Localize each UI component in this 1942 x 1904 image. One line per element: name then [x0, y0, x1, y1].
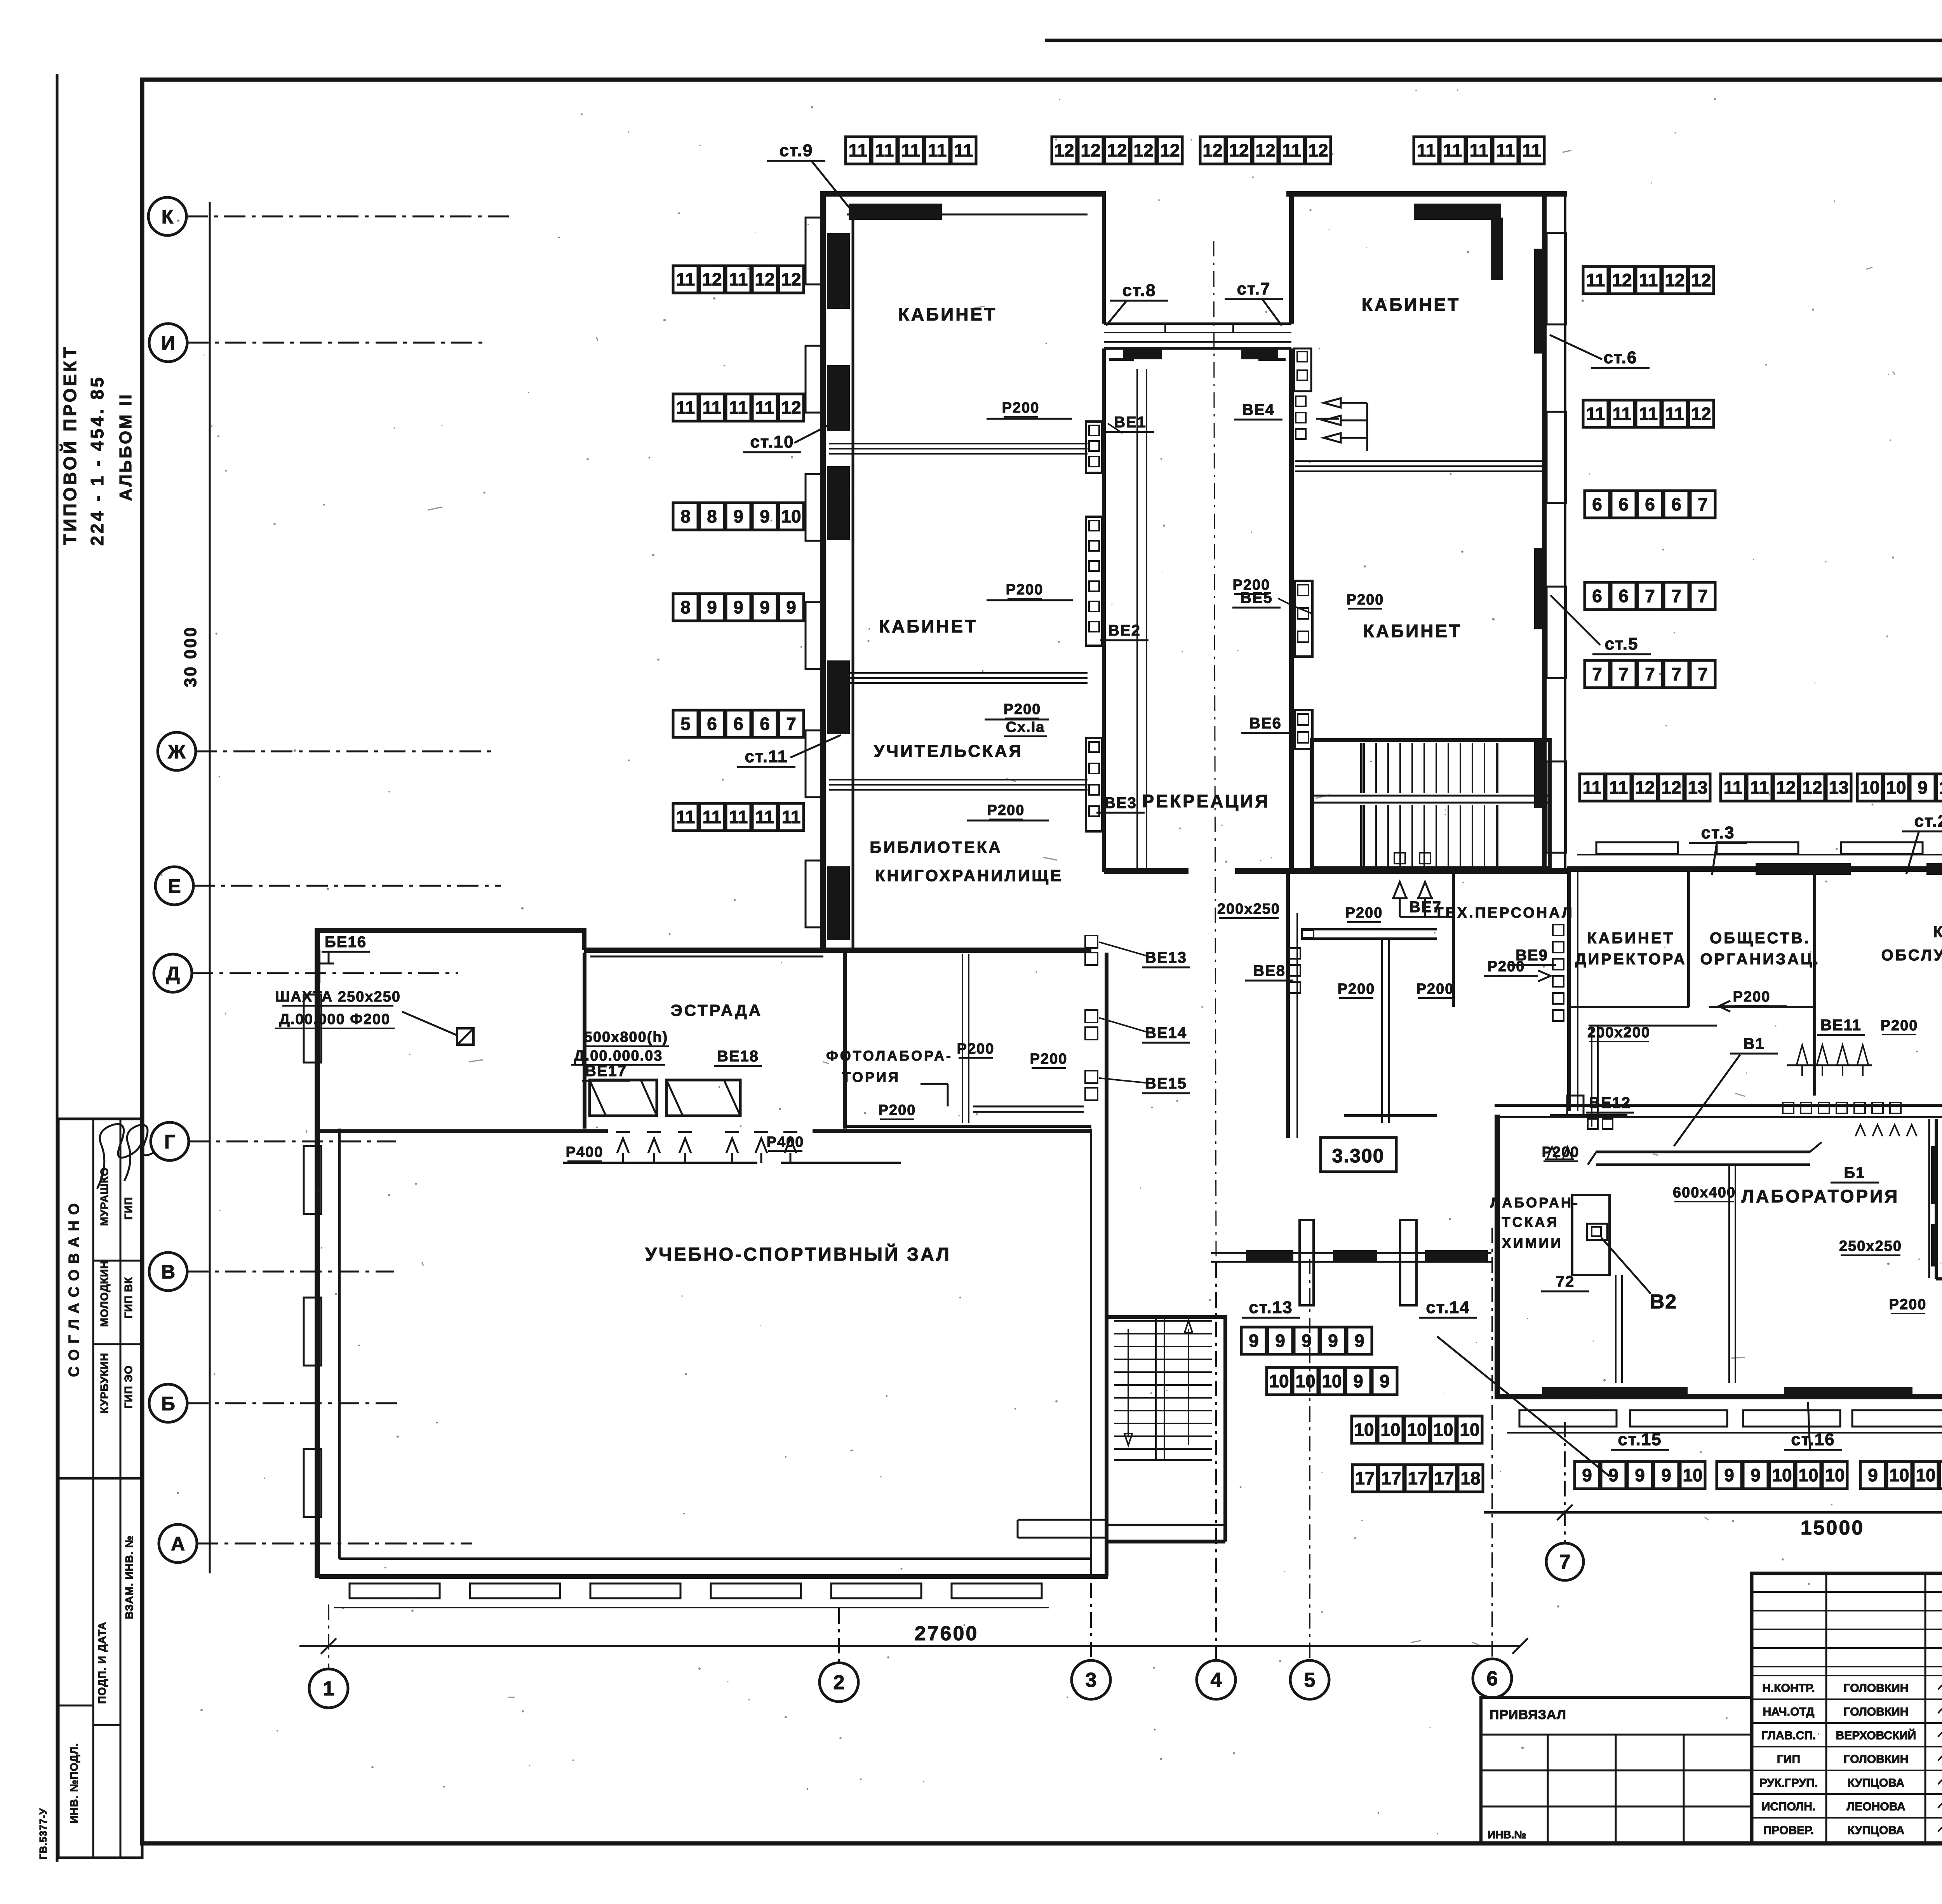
south corridor dark chunk 2: [1333, 1250, 1377, 1263]
axis riser dash line x=2160: [838, 1608, 840, 1663]
title block staff row lines: [1752, 1675, 1942, 1676]
svg-text:200x250: 200x250: [1217, 901, 1280, 917]
svg-text:9: 9: [760, 597, 770, 617]
svg-text:ст.9: ст.9: [780, 141, 813, 160]
photolab duct line: [973, 1106, 1084, 1108]
svg-text:ст.10: ст.10: [750, 432, 794, 451]
VE13 squares: [1085, 935, 1098, 948]
block A outer left wall: [820, 191, 826, 951]
svg-text:ВЕ14: ВЕ14: [1145, 1024, 1187, 1042]
number table strip 11-11-12-12-13: [1721, 774, 1851, 801]
svg-text:АЛЬБОМ II: АЛЬБОМ II: [116, 393, 135, 501]
svg-text:Р400: Р400: [566, 1144, 604, 1160]
svg-text:11: 11: [875, 140, 894, 160]
svg-text:12: 12: [1133, 140, 1153, 160]
svg-text:ГОЛОВКИН: ГОЛОВКИН: [1844, 1705, 1909, 1718]
tech zone west wall: [1286, 871, 1290, 1138]
svg-text:7: 7: [1671, 586, 1681, 606]
svg-text:10: 10: [1860, 777, 1879, 798]
block B right window 2: [1547, 412, 1566, 503]
title block upper mini rows: [1752, 1591, 1942, 1593]
svg-text:7: 7: [1698, 586, 1708, 606]
vertical dimension line 30000: [209, 202, 211, 1573]
svg-text:11: 11: [1609, 777, 1628, 798]
dimension line 27600: [299, 1645, 1520, 1647]
svg-text:10: 10: [1889, 1465, 1909, 1485]
number table strip 8-8-9-9-10: [673, 503, 804, 530]
VE12 arrows: [1547, 1147, 1557, 1158]
svg-text:Р200: Р200: [1881, 1017, 1918, 1034]
svg-text:КУПЦОВА: КУПЦОВА: [1848, 1824, 1904, 1837]
svg-text:11: 11: [849, 140, 868, 160]
VE8 vent squares: [1289, 948, 1300, 959]
axis И dash-dot leader line: [187, 342, 486, 344]
P200 arrow obschestv: [1719, 1005, 1787, 1007]
svg-text:ст.8: ст.8: [1122, 281, 1156, 300]
privyazal table border: [1481, 1697, 1752, 1843]
svg-text:12: 12: [781, 269, 801, 289]
svg-text:9: 9: [1751, 1465, 1761, 1485]
stair tower east wall: [1223, 1315, 1227, 1542]
svg-text:6: 6: [1645, 494, 1655, 514]
svg-text:ТОРИЯ: ТОРИЯ: [842, 1069, 900, 1085]
svg-text:12: 12: [1160, 140, 1180, 160]
stair tower up arrow: [1185, 1321, 1192, 1333]
svg-text:13: 13: [1829, 777, 1848, 798]
south corridor dark chunk 3: [1425, 1250, 1488, 1263]
labs bottom wall dark chunk 2: [1784, 1387, 1912, 1397]
svg-text:10: 10: [1798, 1465, 1818, 1485]
stair tower treads: [1114, 1320, 1212, 1322]
svg-text:10: 10: [1354, 1420, 1374, 1440]
svg-text:9: 9: [1724, 1465, 1734, 1485]
stair tower top wall: [1108, 1315, 1225, 1319]
svg-text:11: 11: [729, 807, 748, 827]
svg-text:КУПЦОВА: КУПЦОВА: [1848, 1777, 1904, 1789]
VE14 leader: [1099, 1018, 1149, 1033]
svg-text:10: 10: [1825, 1465, 1845, 1485]
axis circle 4: [1197, 1660, 1236, 1699]
bridge end hook right: [1258, 358, 1286, 361]
svg-text:10: 10: [1683, 1465, 1702, 1485]
sport hall east wall inner: [1090, 1129, 1092, 1577]
svg-text:10: 10: [1460, 1420, 1479, 1440]
vent chamber VE18: [666, 1080, 740, 1116]
svg-text:6: 6: [1487, 1667, 1498, 1690]
sport hall top inner wall left part: [319, 1129, 608, 1133]
svg-text:9: 9: [1635, 1465, 1645, 1485]
svg-text:11: 11: [1639, 404, 1658, 424]
svg-text:ВЕ18: ВЕ18: [717, 1048, 759, 1065]
svg-text:6: 6: [760, 714, 770, 734]
svg-text:ст.6: ст.6: [1604, 348, 1637, 367]
bridge end hook left: [1109, 358, 1134, 361]
axis Б dash-dot leader line: [187, 1402, 400, 1404]
P200 flow line near VE1: [987, 418, 1072, 420]
svg-text:9: 9: [1661, 1465, 1671, 1485]
svg-text:12: 12: [1802, 777, 1822, 798]
BE16 leader vertical: [328, 953, 330, 963]
svg-text:ВЕ3: ВЕ3: [1104, 794, 1137, 812]
block B outer right wall line: [1564, 191, 1566, 868]
svg-text:10: 10: [1916, 1465, 1935, 1485]
block A black corner chunk: [849, 204, 942, 220]
tech zone partition wall: [1452, 871, 1455, 1007]
svg-text:12: 12: [1054, 140, 1074, 160]
kabinet direktora west wall: [1567, 871, 1571, 1111]
inventory table row line b: [93, 1724, 120, 1726]
riser leader ст.2: [1906, 832, 1919, 874]
direktora vertical pipe pair: [1591, 1026, 1592, 1127]
elevation mark box 3.300: [1321, 1138, 1396, 1172]
svg-text:6: 6: [1618, 494, 1629, 514]
VE4 arrows left: [1324, 398, 1341, 408]
P200 flow line uchitelskaya: [985, 719, 1049, 721]
svg-text:12: 12: [755, 269, 774, 289]
svg-text:ст.13: ст.13: [1249, 1298, 1293, 1317]
block A left pilaster 2: [806, 346, 823, 413]
svg-text:Р200: Р200: [1488, 958, 1525, 975]
stair tower bottom walls: [1108, 1524, 1225, 1526]
svg-text:Ж: Ж: [167, 741, 186, 763]
block A left wall poche chunk 5: [827, 866, 850, 940]
svg-text:КАБИНЕТ: КАБИНЕТ: [898, 304, 997, 324]
svg-text:Р200: Р200: [1345, 905, 1383, 921]
riser leader ст.7: [1262, 299, 1282, 326]
block B black top corner chunk: [1414, 204, 1501, 220]
svg-text:БИБЛИОТЕКА: БИБЛИОТЕКА: [870, 838, 1002, 856]
labs bottom wall: [1495, 1394, 1942, 1399]
svg-text:КАБИНЕТ: КАБИНЕТ: [1363, 621, 1462, 641]
inventory table border: [58, 1478, 142, 1858]
svg-text:500x800(h): 500x800(h): [584, 1029, 668, 1045]
number table strip 9-10-10-10-11: [1860, 1462, 1942, 1489]
number table strip 8-9-9-9-9: [673, 594, 804, 621]
axis circle Б: [149, 1384, 187, 1422]
block B inner right wall: [1542, 191, 1547, 868]
sport west pilaster 2: [304, 1146, 321, 1214]
title block outer border: [1752, 1573, 1942, 1843]
svg-text:3.300: 3.300: [1332, 1145, 1384, 1167]
duct 250x250 vertical bar: [1928, 1119, 1930, 1278]
P200 arrow kabinet B1: [1316, 418, 1339, 420]
riser leader ст.3: [1712, 843, 1717, 875]
svg-text:Р200: Р200: [1733, 989, 1771, 1005]
svg-text:ДИРЕКТОРА: ДИРЕКТОРА: [1575, 951, 1687, 968]
south corridor pillar 2: [1400, 1220, 1416, 1305]
wall obschestv-kabinet truda: [1813, 869, 1816, 1096]
fotolab west wall: [843, 953, 847, 1129]
svg-text:10: 10: [1407, 1420, 1427, 1440]
P200 arrow line tech: [1484, 975, 1538, 977]
soglasovano table border: [58, 1119, 142, 1478]
title block vertical line col1: [1825, 1573, 1827, 1843]
svg-text:ХИМИИ: ХИМИИ: [1502, 1235, 1563, 1251]
central stair treads lower flight: [1363, 805, 1365, 866]
svg-text:КАБИНЕТ: КАБИНЕТ: [1362, 294, 1460, 315]
block A inner top wall line: [847, 214, 1088, 216]
svg-text:12: 12: [1229, 140, 1249, 160]
number table strip 6-6-7-7-7: [1585, 582, 1715, 610]
svg-text:БЕ16: БЕ16: [325, 934, 367, 951]
himii vertical pipe pair: [1615, 1275, 1617, 1383]
svg-text:Г: Г: [164, 1131, 175, 1153]
block A interior wall kabinet1-kabinet2: [829, 443, 1088, 444]
svg-text:Н.КОНТР.: Н.КОНТР.: [1762, 1682, 1815, 1695]
bridge corridor lower double line: [1104, 341, 1291, 343]
block A left wall poche chunk 3: [827, 466, 850, 540]
svg-text:ОБЩЕСТВ.: ОБЩЕСТВ.: [1710, 930, 1811, 947]
axis В dash-dot leader line: [187, 1271, 394, 1273]
labs bottom window 4: [1852, 1410, 1942, 1427]
svg-text:ЛАБОРАТОРИЯ: ЛАБОРАТОРИЯ: [1742, 1186, 1899, 1206]
tech zone duct 200x250 bar: [1301, 928, 1437, 930]
privyazal grid lines: [1547, 1735, 1549, 1843]
axis circle 3: [1072, 1660, 1110, 1699]
VE13 leader: [1099, 942, 1149, 956]
axis circle Ж: [158, 732, 196, 770]
number table strip 7-7-7-7-7: [1585, 660, 1715, 688]
axis circle Д: [154, 954, 192, 992]
svg-text:ст.14: ст.14: [1426, 1298, 1470, 1317]
svg-text:9: 9: [1353, 1371, 1363, 1391]
svg-text:9: 9: [1328, 1331, 1338, 1351]
axis К dash-dot leader line: [186, 216, 509, 218]
dimension line 15000: [1484, 1511, 1942, 1514]
svg-text:10: 10: [1295, 1371, 1315, 1391]
axis riser dash line x=3372: [1309, 1259, 1310, 1660]
block B wall dark chunk 1: [1534, 249, 1546, 354]
axis circle В: [149, 1252, 187, 1291]
block B right window 3: [1547, 587, 1566, 678]
svg-text:Сх.Iа: Сх.Iа: [1006, 719, 1045, 735]
right block top window 1: [1596, 842, 1678, 854]
svg-text:12: 12: [1612, 270, 1632, 290]
sport block top wall estrada segment: [584, 948, 1091, 953]
svg-text:9: 9: [1380, 1371, 1390, 1391]
estrada inner outline: [590, 956, 823, 958]
sport bottom sill line: [334, 1607, 1049, 1608]
axis circle И: [149, 324, 187, 362]
number table strip 10-10-10-10-10: [1352, 1416, 1482, 1443]
svg-text:ШАХТА 250x250: ШАХТА 250x250: [275, 989, 401, 1005]
svg-text:11: 11: [1583, 777, 1602, 798]
VE1 leader: [1108, 423, 1122, 433]
svg-text:5: 5: [680, 714, 691, 734]
labs bottom sill line: [1507, 1432, 1942, 1434]
axis circle 6: [1473, 1659, 1512, 1698]
svg-text:12: 12: [1691, 270, 1711, 290]
svg-text:224 - 1 - 454. 85: 224 - 1 - 454. 85: [87, 375, 107, 546]
svg-text:ЛЕОНОВА: ЛЕОНОВА: [1846, 1800, 1905, 1813]
svg-text:11: 11: [1523, 140, 1542, 160]
sport block west wall: [315, 930, 320, 1578]
svg-text:12: 12: [781, 397, 801, 418]
block B wall dark chunk 2: [1534, 548, 1546, 629]
estrada supply header line left: [563, 1162, 757, 1164]
riser leader ст.11: [790, 735, 841, 758]
soglasovano table column line 2: [120, 1119, 122, 1478]
svg-text:ИСПОЛН.: ИСПОЛН.: [1762, 1800, 1815, 1813]
bridge black chunk right: [1241, 349, 1278, 359]
sport west pilaster 1: [304, 995, 321, 1063]
svg-text:17: 17: [1381, 1468, 1401, 1488]
svg-text:7: 7: [1671, 664, 1681, 684]
svg-text:10: 10: [1380, 1420, 1400, 1440]
svg-text:ВЕ4: ВЕ4: [1242, 401, 1275, 418]
south corridor dark chunk 1: [1246, 1250, 1293, 1263]
svg-text:ПОДП. И ДАТА: ПОДП. И ДАТА: [96, 1622, 108, 1704]
svg-text:9: 9: [707, 597, 717, 617]
svg-text:Р200: Р200: [1338, 981, 1375, 997]
svg-text:9: 9: [786, 597, 796, 617]
right block top wall dark chunk 1: [1756, 863, 1851, 875]
riser leader ст.10: [794, 419, 841, 443]
stair tower landing line: [1114, 1459, 1212, 1461]
labs vertical pipe pair: [1728, 1165, 1730, 1383]
svg-text:2: 2: [834, 1671, 845, 1694]
svg-text:12: 12: [1081, 140, 1100, 160]
svg-text:Р200: Р200: [1030, 1051, 1068, 1067]
svg-text:КАБИНЕТ: КАБИНЕТ: [1933, 923, 1942, 941]
svg-text:ПРОВЕР.: ПРОВЕР.: [1763, 1824, 1814, 1837]
svg-text:9: 9: [1868, 1465, 1878, 1485]
svg-text:ГОЛОВКИН: ГОЛОВКИН: [1844, 1682, 1909, 1695]
labs top wall double: [1495, 1104, 1942, 1107]
svg-text:9: 9: [733, 597, 743, 617]
svg-text:250x250: 250x250: [1839, 1238, 1902, 1254]
vent unit VE6 boxes: [1295, 710, 1312, 749]
right block top window 3: [1841, 842, 1923, 854]
svg-text:6: 6: [1592, 586, 1602, 606]
number table strip 6-6-6-6-7: [1585, 491, 1715, 518]
svg-text:ст.16: ст.16: [1791, 1430, 1835, 1449]
dimension tick at axis 6: [1512, 1638, 1528, 1654]
svg-text:6: 6: [1592, 494, 1602, 514]
number table strip 17-17-17-17-18: [1352, 1465, 1483, 1492]
block A interior wall uchitelskaya-biblioteka: [829, 779, 1088, 780]
riser leader ст.16: [1808, 1402, 1810, 1449]
svg-text:7: 7: [1698, 494, 1708, 514]
privyazal row line: [1481, 1734, 1752, 1736]
svg-text:11: 11: [782, 807, 801, 827]
svg-text:12: 12: [1635, 777, 1655, 798]
labs bottom window 1: [1519, 1410, 1617, 1427]
vent column VE4 squares below bridge: [1294, 348, 1311, 391]
svg-text:УЧЕБНО-СПОРТИВНЫЙ ЗАЛ: УЧЕБНО-СПОРТИВНЫЙ ЗАЛ: [645, 1244, 951, 1265]
vent chamber VE17: [590, 1080, 657, 1116]
svg-text:ФОТОЛАБОРА-: ФОТОЛАБОРА-: [826, 1048, 953, 1064]
svg-text:11: 11: [676, 269, 695, 289]
number table strip 11-11-11-11-11: [1414, 137, 1544, 164]
svg-text:4: 4: [1211, 1669, 1222, 1691]
sport hall bottom inner wall: [339, 1557, 1090, 1560]
top band upper line: [1045, 39, 1942, 42]
svg-text:11: 11: [1443, 140, 1462, 160]
svg-text:8: 8: [680, 597, 691, 617]
svg-text:УЧИТЕЛЬСКАЯ: УЧИТЕЛЬСКАЯ: [874, 742, 1023, 761]
svg-text:ГИП ВК: ГИП ВК: [122, 1277, 134, 1318]
svg-text:12: 12: [702, 269, 722, 289]
inventory table column line 1: [92, 1478, 94, 1858]
block B right window 4: [1547, 761, 1566, 853]
vent unit VE1 box: [1086, 422, 1102, 473]
svg-text:9: 9: [1582, 1465, 1592, 1485]
block A left pilaster 5: [806, 730, 823, 797]
recreation south wall: [1104, 868, 1189, 874]
svg-text:7: 7: [1618, 664, 1629, 684]
svg-text:Р400: Р400: [767, 1134, 804, 1150]
labs west wall: [1495, 1115, 1500, 1399]
svg-text:12: 12: [1107, 140, 1127, 160]
vent squares row on labs wall group 1: [1783, 1103, 1794, 1113]
svg-text:С О Г Л А С О В А Н О: С О Г Л А С О В А Н О: [66, 1202, 82, 1377]
svg-text:12: 12: [1691, 404, 1711, 424]
dimension tick at axis 1: [321, 1638, 336, 1654]
svg-text:ГЛАВ.СП.: ГЛАВ.СП.: [1761, 1729, 1816, 1742]
axis circle Е: [155, 867, 193, 905]
block A left pilaster 1: [806, 218, 823, 284]
svg-text:10: 10: [1269, 1371, 1289, 1391]
number table strip 11-11-12-12-13: [1580, 774, 1710, 801]
svg-text:17: 17: [1355, 1468, 1375, 1488]
bridge window divider 1: [1164, 324, 1166, 333]
VE11 bell symbols above labs wall: [1797, 1045, 1808, 1064]
scan scratch marks: [225, 150, 1942, 1697]
svg-text:РУК.ГРУП.: РУК.ГРУП.: [1759, 1777, 1818, 1789]
svg-text:9: 9: [1302, 1331, 1312, 1351]
block A right wall upper: [1102, 191, 1106, 324]
sport hall inner west wall: [338, 1129, 341, 1559]
svg-text:17: 17: [1434, 1468, 1454, 1488]
svg-text:200x200: 200x200: [1587, 1024, 1650, 1041]
central stairwell outline: [1312, 740, 1550, 868]
svg-text:ГИП: ГИП: [1777, 1753, 1800, 1766]
number table strip 5-6-6-6-7: [673, 710, 804, 737]
svg-text:1: 1: [323, 1678, 334, 1700]
svg-text:7: 7: [1592, 664, 1602, 684]
svg-text:10: 10: [781, 506, 801, 526]
svg-text:ЛАБОРАН-: ЛАБОРАН-: [1490, 1195, 1580, 1211]
svg-text:ВЕ1: ВЕ1: [1114, 414, 1147, 431]
labs bottom wall dark chunk 1: [1542, 1387, 1688, 1397]
svg-text:ВЕ8: ВЕ8: [1253, 962, 1286, 979]
axis riser dash line x=3131: [1215, 1263, 1217, 1660]
VE15 leader: [1099, 1078, 1149, 1083]
himii room enclosure: [1572, 1195, 1610, 1275]
svg-text:9: 9: [760, 506, 770, 526]
dimension tick at axis 7 line: [1557, 1505, 1573, 1520]
svg-text:7: 7: [1645, 586, 1655, 606]
sport bottom window 6: [952, 1583, 1042, 1598]
svg-text:10: 10: [1433, 1420, 1453, 1440]
svg-text:И: И: [161, 332, 175, 354]
right block top window 2: [1717, 842, 1798, 854]
svg-text:В1: В1: [1743, 1035, 1765, 1052]
svg-text:30 000: 30 000: [181, 626, 200, 688]
svg-text:11: 11: [755, 397, 774, 418]
svg-text:10: 10: [1322, 1371, 1342, 1391]
svg-text:Р200: Р200: [1002, 400, 1040, 416]
svg-text:ОРГАНИЗАЦ.: ОРГАНИЗАЦ.: [1700, 951, 1820, 968]
svg-text:КНИГОХРАНИЛИЩЕ: КНИГОХРАНИЛИЩЕ: [875, 866, 1063, 885]
block A top wall: [820, 191, 1102, 197]
svg-text:11: 11: [1586, 270, 1605, 290]
riser leader ст.9: [812, 161, 853, 212]
central stair landing lines: [1312, 795, 1550, 797]
svg-text:Р200: Р200: [1233, 577, 1270, 593]
axis circle 7: [1546, 1543, 1584, 1580]
